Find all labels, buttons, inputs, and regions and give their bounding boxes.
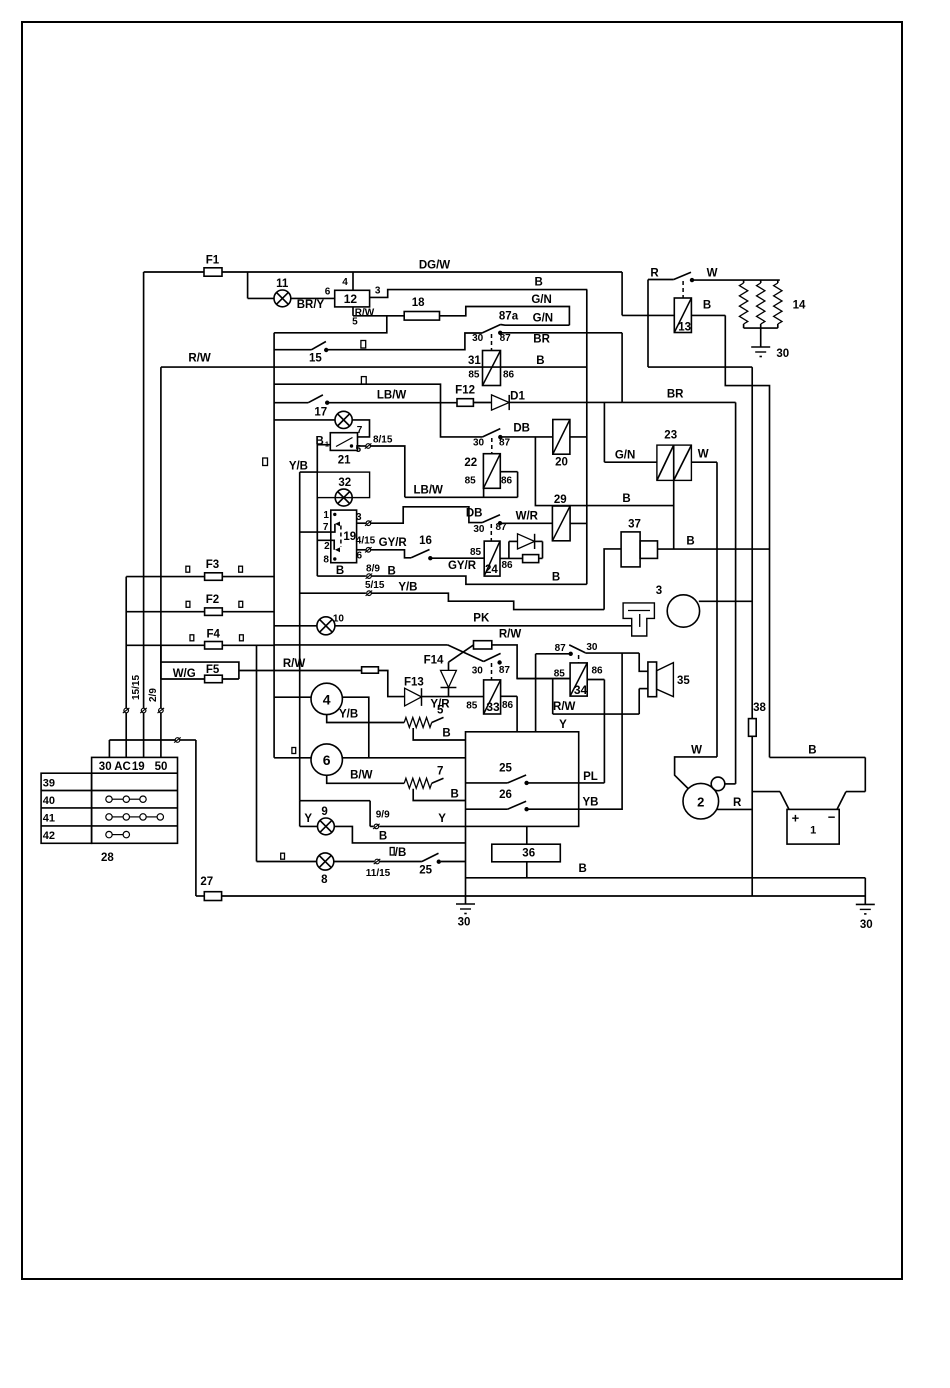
svg-text:PK: PK: [473, 613, 490, 625]
lamp 8: [257, 853, 334, 886]
diode F13: [404, 677, 424, 706]
svg-text:B: B: [336, 565, 344, 577]
svg-text:W: W: [691, 745, 702, 757]
wire Y to box: [379, 813, 465, 826]
lamp 9: [300, 806, 335, 835]
wire switch feed to relay 22: [274, 384, 483, 437]
ground 30 of resistors: [751, 347, 789, 360]
wire B from resistor 5: [413, 728, 465, 741]
svg-text:W: W: [707, 268, 718, 280]
svg-text:30: 30: [472, 665, 484, 676]
control unit box: [466, 732, 579, 827]
svg-text:R/W: R/W: [499, 629, 522, 641]
svg-text:40: 40: [43, 795, 55, 807]
wire pin 4: [342, 272, 353, 290]
svg-text:5: 5: [352, 317, 358, 328]
wire relay33 86 drop: [501, 696, 517, 732]
wire relay22 85 stub: [483, 488, 485, 497]
svg-text:20: 20: [555, 457, 568, 469]
svg-text:4: 4: [323, 692, 331, 708]
svg-text:B/W: B/W: [350, 770, 373, 782]
svg-text:2: 2: [697, 795, 704, 810]
lamp 32: [335, 489, 352, 506]
left vertical F3: [125, 577, 127, 709]
relay 31 switch arm 87a: [483, 311, 519, 335]
svg-text:4: 4: [342, 277, 348, 288]
svg-text:35: 35: [677, 675, 690, 687]
wire Y/B lamp4: [327, 709, 405, 723]
svg-text:YB: YB: [583, 797, 599, 809]
svg-text:85: 85: [470, 547, 482, 558]
relay 29 coil: [552, 494, 570, 541]
fuse 27: [200, 876, 221, 901]
svg-text:28: 28: [101, 852, 114, 864]
relay 24 coil: [470, 524, 513, 576]
wire B vertical main: [586, 290, 588, 585]
relay 34 coil: [554, 655, 603, 697]
resistor 7: [404, 766, 443, 789]
wire lamp6 out: [342, 757, 465, 759]
wire R switch common down: [648, 280, 752, 368]
svg-text:87: 87: [499, 438, 511, 449]
svg-text:37: 37: [628, 518, 641, 530]
svg-text:B: B: [578, 863, 586, 875]
fuse F4 row: [126, 644, 274, 646]
wire R/W loop bottom: [553, 680, 640, 715]
svg-text:8/9: 8/9: [366, 564, 380, 575]
connector square on relay22 feed: [361, 377, 366, 385]
svg-text:30: 30: [586, 642, 598, 653]
svg-text:22: 22: [464, 457, 477, 469]
svg-text:30: 30: [776, 348, 789, 360]
wire relay34 85: [517, 678, 570, 680]
svg-text:32: 32: [338, 477, 351, 489]
wire DB to relay 20: [500, 423, 553, 437]
wire bottom bus: [196, 740, 865, 896]
svg-text:R: R: [733, 797, 742, 809]
svg-text:W: W: [698, 449, 709, 461]
svg-text:36: 36: [522, 848, 535, 860]
svg-text:B: B: [552, 572, 560, 584]
svg-text:5: 5: [356, 444, 362, 455]
svg-text:3: 3: [356, 512, 362, 523]
svg-text:BR: BR: [533, 334, 550, 346]
svg-text:B: B: [534, 277, 542, 289]
svg-text:33: 33: [486, 700, 500, 714]
wire pin7 Y/B: [300, 524, 335, 532]
fuse F2 row: [126, 611, 274, 613]
wire G/N drop to relay 23: [604, 402, 657, 462]
svg-text:B: B: [379, 831, 387, 843]
wire relay13 B out: [691, 300, 725, 316]
svg-text:W/G: W/G: [173, 668, 196, 680]
svg-text:19: 19: [132, 761, 145, 773]
battery 1: [787, 809, 839, 844]
svg-text:18: 18: [412, 297, 425, 309]
switch 15: [274, 342, 328, 365]
wire horn tabs: [639, 653, 648, 714]
wire pin 5 R/W: [352, 307, 404, 328]
wire F13 out Y/R: [422, 697, 484, 711]
wire 30 to horn: [585, 652, 639, 654]
wire LB/W lower: [405, 485, 518, 498]
wire 16 to relay24 85: [430, 558, 484, 572]
resistor 38: [749, 702, 767, 896]
svg-text:B: B: [808, 745, 816, 757]
wire fuse to relay33 85: [492, 645, 570, 679]
wire W from 23: [691, 449, 717, 463]
labels 30 87 relay31: [472, 333, 511, 344]
fuse F1: [204, 255, 222, 277]
svg-text:B: B: [442, 728, 450, 740]
svg-text:87a: 87a: [499, 311, 519, 323]
resistor relay24 parallel: [523, 555, 543, 563]
wire W to motor: [675, 745, 717, 789]
label DG/W: [419, 260, 450, 272]
svg-text:R/W: R/W: [188, 353, 211, 365]
wire YB: [527, 653, 623, 809]
label B mid: [622, 493, 630, 505]
left vertical 15-15: [143, 272, 145, 708]
svg-text:85: 85: [466, 701, 478, 712]
wire sensor 3 to B net: [699, 600, 752, 602]
wire B from resistor 7: [413, 789, 465, 801]
svg-text:B: B: [536, 355, 544, 367]
wire fuse18 to G/N: [440, 307, 570, 326]
svg-text:LB/W: LB/W: [414, 485, 444, 497]
wire 5/15 Y/B row: [300, 580, 418, 596]
wire R/W long line: [161, 353, 587, 368]
svg-text:25: 25: [499, 763, 512, 775]
gauge 6: [274, 744, 342, 775]
svg-text:Y: Y: [438, 813, 446, 825]
wire lamp to box21 pin7: [352, 420, 369, 437]
wire lamp4 to lamp6 link: [342, 697, 368, 758]
wire jog F4 to F5: [161, 645, 239, 679]
wire B lower link: [658, 536, 770, 550]
wire D1 output: [509, 401, 622, 403]
svg-text:11: 11: [276, 278, 289, 290]
svg-text:W/R: W/R: [516, 511, 539, 523]
svg-text:Y/B: Y/B: [398, 582, 417, 594]
relay 33 switch: [472, 653, 511, 676]
svg-text:12: 12: [344, 292, 358, 306]
svg-text:2/9: 2/9: [148, 688, 159, 702]
wire battery minus down: [864, 878, 866, 905]
wire W/R to relay 29: [500, 511, 552, 524]
svg-text:41: 41: [43, 812, 55, 824]
wire W to resistors: [692, 279, 780, 281]
svg-text:86: 86: [501, 560, 513, 571]
svg-text:R: R: [650, 268, 659, 280]
wire 15 to relay31 contact 30: [326, 333, 482, 350]
resistor 5: [404, 705, 444, 728]
svg-text:GY/R: GY/R: [379, 537, 408, 549]
wire 87a G/N: [501, 313, 570, 326]
relay 31 coil: [468, 334, 545, 386]
svg-text:21: 21: [338, 455, 351, 467]
svg-text:86: 86: [501, 476, 513, 487]
gauge 4: [274, 683, 342, 714]
wire 8/15 drop to LB/W: [371, 446, 405, 497]
svg-text:LB/W: LB/W: [377, 390, 407, 402]
svg-text:F5: F5: [206, 664, 220, 676]
svg-text:86: 86: [502, 700, 514, 711]
svg-text:Y/B: Y/B: [289, 461, 308, 473]
svg-text:30: 30: [458, 917, 471, 929]
svg-text:1: 1: [810, 825, 816, 837]
wire B/W lamp6: [327, 770, 405, 784]
svg-text:42: 42: [43, 830, 55, 842]
switch 25: [466, 763, 529, 785]
terminal 15/15: [131, 675, 147, 758]
svg-text:Y/B: Y/B: [339, 709, 358, 721]
svg-text:6: 6: [323, 752, 331, 768]
svg-text:11/15: 11/15: [366, 868, 391, 879]
lamp 32 box: [317, 472, 369, 498]
svg-text:GY/R: GY/R: [448, 560, 477, 572]
svg-text:10: 10: [333, 614, 345, 625]
svg-text:PL: PL: [583, 771, 598, 783]
wire 87 to Y: [536, 654, 571, 732]
svg-text:3: 3: [656, 585, 662, 597]
svg-text:R/W: R/W: [553, 701, 576, 713]
connector square on line 15: [361, 341, 366, 349]
switch 17 LB/W: [274, 395, 329, 419]
wire pin3 DB via terminal: [356, 512, 372, 526]
svg-text:DB: DB: [466, 508, 483, 520]
svg-text:29: 29: [554, 494, 567, 506]
svg-text:86: 86: [591, 666, 603, 677]
wire 87 BR: [500, 333, 622, 346]
svg-text:86: 86: [503, 370, 515, 381]
wire relay22 86 drop: [500, 472, 517, 498]
thermo switch 3 plug: [623, 585, 662, 636]
svg-text:38: 38: [753, 702, 766, 714]
svg-text:85: 85: [468, 370, 480, 381]
svg-text:85: 85: [465, 476, 477, 487]
wire R/W into crossover: [274, 629, 521, 645]
svg-text:F1: F1: [206, 255, 220, 267]
wire LB/W to F12: [327, 390, 457, 403]
wire B1 to vertical: [317, 445, 331, 576]
svg-text:14: 14: [793, 300, 806, 312]
svg-text:30: 30: [473, 438, 485, 449]
svg-text:26: 26: [499, 789, 512, 801]
wire R/W from F5: [239, 658, 362, 671]
svg-text:9/9: 9/9: [376, 810, 390, 821]
wire lamp9 right: [334, 826, 465, 843]
svg-text:F14: F14: [424, 655, 444, 667]
wire R motor to battery: [717, 797, 753, 809]
svg-text:2: 2: [324, 541, 330, 552]
svg-text:87: 87: [500, 333, 512, 344]
wire relay34 86 loop: [587, 680, 604, 783]
relay 22 coil: [464, 438, 512, 488]
svg-text:30: 30: [473, 524, 485, 535]
wire F1 supply top: [144, 271, 622, 273]
lamp 11: [274, 278, 291, 307]
relay box 23: [657, 430, 692, 481]
svg-text:25: 25: [419, 865, 432, 877]
svg-text:B: B: [686, 536, 694, 548]
svg-text:BR: BR: [667, 389, 684, 401]
wire Y/B top: [289, 461, 317, 473]
svg-text:G/N: G/N: [531, 294, 551, 306]
svg-text:F13: F13: [404, 677, 424, 689]
svg-text:R/W: R/W: [355, 308, 375, 319]
fuse F12: [455, 385, 475, 407]
wire down to resistor 38 and motor: [751, 367, 753, 718]
svg-text:85: 85: [554, 668, 566, 679]
svg-text:F12: F12: [455, 385, 475, 397]
unit box 36: [492, 826, 561, 877]
svg-text:−: −: [828, 810, 836, 825]
svg-text:DB: DB: [513, 423, 530, 435]
switch R of relay 13: [648, 268, 718, 282]
lamp of circuit 17: [274, 411, 352, 428]
wire DB branch down: [535, 437, 673, 506]
svg-text:7: 7: [437, 766, 443, 778]
fuse F3 row: [126, 576, 274, 578]
diode D1: [473, 391, 525, 411]
svg-text:87: 87: [499, 665, 511, 676]
svg-text:3: 3: [375, 286, 381, 297]
wire relay20 to B vertical: [570, 436, 587, 438]
svg-text:/B: /B: [395, 847, 407, 859]
label B1: [315, 436, 329, 449]
svg-text:15: 15: [309, 353, 322, 365]
relay 33 coil: [466, 663, 513, 714]
wire PK: [335, 613, 632, 626]
svg-text:1: 1: [323, 510, 329, 521]
svg-text:F3: F3: [206, 559, 219, 571]
svg-text:+: +: [792, 811, 800, 826]
relay 20 coil: [553, 420, 570, 469]
svg-text:BR/Y: BR/Y: [297, 299, 325, 311]
svg-text:34: 34: [574, 683, 588, 697]
battery leads: [752, 757, 865, 809]
wire pin6 4/15 GY/R: [356, 536, 408, 562]
svg-text:B: B: [622, 493, 630, 505]
wire W vertical: [716, 462, 718, 757]
fuse F5 W/G row: [161, 664, 239, 683]
ignition connector table 28: [41, 757, 177, 864]
connector on R/W wire: [362, 667, 379, 673]
svg-text:F4: F4: [206, 629, 220, 641]
wire PL: [527, 771, 605, 783]
svg-text:27: 27: [200, 876, 213, 888]
wire F4 down to lamp 8: [256, 645, 258, 861]
svg-text:8/15: 8/15: [373, 435, 393, 446]
svg-text:5: 5: [437, 705, 444, 717]
resistor bank 14: [739, 280, 806, 347]
connector box 19: [331, 510, 357, 563]
svg-text:24: 24: [485, 564, 498, 576]
svg-text:D1: D1: [510, 391, 525, 403]
connector square floating: [263, 458, 268, 466]
wire pin5 to 8/15 terminal: [356, 435, 393, 456]
svg-text:8: 8: [321, 874, 328, 886]
svg-text:30: 30: [99, 761, 112, 773]
terminal 2/9: [148, 688, 164, 758]
svg-text:30: 30: [860, 919, 873, 931]
svg-text:B: B: [703, 300, 711, 312]
lamp 10: [274, 614, 344, 635]
wire B bus: [466, 826, 866, 904]
svg-text:Y: Y: [304, 813, 312, 825]
ignition switch box 12: [335, 290, 370, 307]
svg-text:Y: Y: [559, 719, 567, 731]
wire 37 left: [604, 549, 621, 610]
svg-text:5/15: 5/15: [365, 580, 385, 591]
svg-text:13: 13: [678, 322, 691, 334]
sensor 3 circle: [667, 595, 699, 627]
left vertical from R/W: [160, 367, 162, 708]
svg-text:4/15: 4/15: [356, 536, 376, 547]
svg-text:31: 31: [468, 355, 481, 367]
wire R/W branch from pin5 to left rail: [274, 316, 387, 333]
svg-text:16: 16: [419, 535, 432, 547]
wire drop to lamp 11: [248, 272, 274, 298]
svg-text:50: 50: [155, 761, 168, 773]
fuse on R/W crossover: [474, 641, 492, 649]
switch 25 lamp8: [380, 853, 440, 876]
svg-text:8: 8: [323, 555, 329, 566]
wire pin2: [317, 540, 334, 550]
svg-text:B: B: [451, 789, 459, 801]
diode F14: [424, 655, 457, 697]
ground 30 center: [456, 904, 475, 929]
svg-text:AC: AC: [114, 761, 131, 773]
svg-text:6: 6: [325, 287, 331, 298]
svg-text:F2: F2: [206, 594, 219, 606]
label G/N upper: [531, 294, 551, 306]
svg-text:G/N: G/N: [615, 450, 635, 462]
switch 16: [371, 535, 432, 560]
diode relay24 parallel: [509, 534, 543, 559]
wire 8/9 B row: [317, 564, 395, 579]
wire Y/B vertical: [299, 472, 301, 801]
relay 22 switch arm: [473, 429, 511, 449]
wire relay29 to B vertical: [570, 522, 587, 524]
relay 13 coil: [674, 281, 691, 334]
left rail vertical: [273, 333, 275, 758]
terminal 11/15: [334, 847, 406, 879]
wire B to battery: [770, 745, 866, 758]
wire BR vertical right: [622, 333, 736, 403]
relay 24 switch DB: [466, 508, 507, 536]
svg-text:R/W: R/W: [283, 658, 306, 670]
wire box23 bottom link: [673, 480, 675, 549]
svg-text:23: 23: [664, 430, 677, 442]
svg-text:DG/W: DG/W: [419, 260, 450, 272]
horn 35: [648, 662, 690, 697]
wire R/W to F13: [378, 671, 404, 697]
connector square lamp8: [281, 853, 285, 859]
connector 37: [621, 518, 657, 567]
svg-text:6: 6: [357, 551, 363, 562]
wire terminal bus: [109, 737, 195, 757]
terminal 9/9: [370, 810, 390, 830]
svg-text:19: 19: [343, 531, 356, 543]
wire Y/B to lamp 9 loop: [300, 801, 370, 827]
wire BR to motor: [725, 402, 736, 784]
fuse 18: [404, 297, 439, 320]
ground 30 right: [856, 904, 875, 931]
svg-text:G/N: G/N: [533, 313, 553, 325]
svg-text:9: 9: [321, 806, 327, 818]
